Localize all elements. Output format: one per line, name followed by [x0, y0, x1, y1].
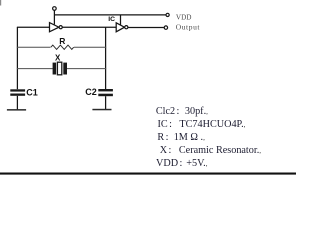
wire output of U1 to node B and U2 input	[62, 26, 116, 28]
svg-text:R: R	[59, 36, 65, 46]
svg-text:C1: C1	[26, 88, 38, 98]
wire stub from P1 down to inverter U1	[53, 10, 55, 24]
wire output net: right vertical from node B down to C2	[105, 27, 107, 89]
note line 1 label: Clc2	[156, 106, 179, 117]
inverter U2 (1/2 TC74HCU04P)	[116, 23, 128, 32]
note line 1 value: 30pf	[185, 106, 208, 118]
wire stub from VDD rail down to inverter U2	[120, 15, 122, 25]
wire C2 bottom lead	[105, 96, 107, 109]
note line 4 label: X	[160, 145, 172, 156]
note line 5 label: VDD	[156, 158, 182, 169]
svg-text:C2: C2	[85, 87, 97, 97]
wire to resonator X left	[17, 68, 53, 70]
ground under C1	[7, 109, 26, 111]
wire from U2 output to Output terminal	[128, 27, 164, 29]
resistor R	[51, 45, 74, 49]
note line 5 value: +5V	[186, 158, 207, 170]
note line 3 label: R	[157, 132, 168, 143]
terminal VDD	[166, 13, 169, 16]
wire C1 bottom lead	[16, 96, 18, 110]
note line 2 value: TC74HCUO4P	[179, 119, 245, 131]
wire from resistor R right to node B branch	[74, 46, 106, 48]
terminal pin P1 (VDD pin of IC)	[53, 7, 57, 11]
edge artifact tick top-left	[0, 0, 1, 6]
capacitor C1	[10, 89, 25, 96]
horizontal rule at bottom	[0, 173, 296, 175]
note line 3 value: 1M ohm	[174, 132, 205, 144]
wire input net: horizontal into U1 input	[17, 26, 50, 28]
wire input net: left vertical from node A down to C1	[16, 27, 18, 89]
wire to resistor R left	[17, 46, 51, 48]
terminal Output	[164, 26, 167, 29]
svg-text:VDD: VDD	[176, 13, 192, 21]
svg-text:Output: Output	[176, 23, 201, 32]
wire from resonator X right to node B branch	[67, 68, 106, 70]
inverter U1 (1/2 TC74HCU04P)	[50, 23, 63, 32]
capacitor C2	[98, 89, 113, 96]
svg-text:X: X	[55, 54, 61, 63]
wire VDD rail	[54, 14, 166, 16]
ceramic resonator X	[53, 62, 67, 75]
ground under C2	[92, 109, 111, 111]
svg-text:IC: IC	[108, 16, 115, 23]
note line 2 label: IC	[158, 119, 172, 130]
note line 4 value: Ceramic Resonator	[179, 145, 261, 157]
